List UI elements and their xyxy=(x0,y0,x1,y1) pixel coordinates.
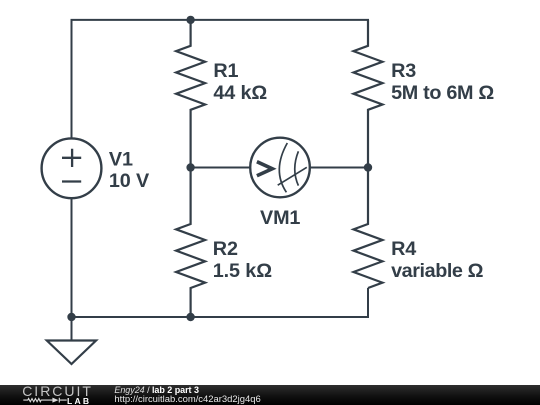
node B: R1/R2/VM1 junction xyxy=(186,163,194,171)
wire middle rail right: VM1 to node C xyxy=(310,167,368,169)
svg-text:10 V: 10 V xyxy=(109,170,150,192)
footer bar xyxy=(0,385,540,405)
node: top rail / R1 junction xyxy=(186,16,194,24)
svg-text:44 kΩ: 44 kΩ xyxy=(213,82,267,104)
resistor R3 xyxy=(354,20,383,168)
wire bottom rail from R4 bottom to ground node xyxy=(72,288,369,317)
node C: R3/R4/VM1 junction xyxy=(364,163,372,171)
wire V1 bottom lead to ground node xyxy=(71,198,73,317)
svg-text:R1: R1 xyxy=(213,60,238,82)
wire middle rail left: node B to VM1 xyxy=(191,167,251,169)
voltmeter VM1 xyxy=(250,138,310,198)
svg-text:VM1: VM1 xyxy=(260,207,300,229)
CircuitLab logo LAB xyxy=(67,399,91,405)
node: bottom rail / R2 junction xyxy=(186,313,194,321)
ground xyxy=(47,317,96,364)
svg-text:1.5 kΩ: 1.5 kΩ xyxy=(213,260,272,282)
svg-text:R3: R3 xyxy=(391,60,416,82)
CircuitLab logo text xyxy=(22,387,93,397)
node: ground junction xyxy=(67,313,75,321)
svg-text:variable Ω: variable Ω xyxy=(391,260,483,282)
svg-text:R4: R4 xyxy=(391,238,416,260)
voltage source V1 xyxy=(42,138,102,198)
url line xyxy=(114,395,260,405)
wire top rail from V1 top to R3 top xyxy=(72,20,369,138)
svg-text:V1: V1 xyxy=(109,148,133,170)
svg-text:5M to 6M Ω: 5M to 6M Ω xyxy=(391,82,494,104)
resistor R2 xyxy=(176,168,205,318)
CircuitLab logo doodle: resistor + diode xyxy=(23,397,68,405)
svg-text:R2: R2 xyxy=(213,238,238,260)
resistor R4 xyxy=(354,168,383,289)
credit line xyxy=(114,385,199,395)
resistor R1 xyxy=(176,20,205,168)
